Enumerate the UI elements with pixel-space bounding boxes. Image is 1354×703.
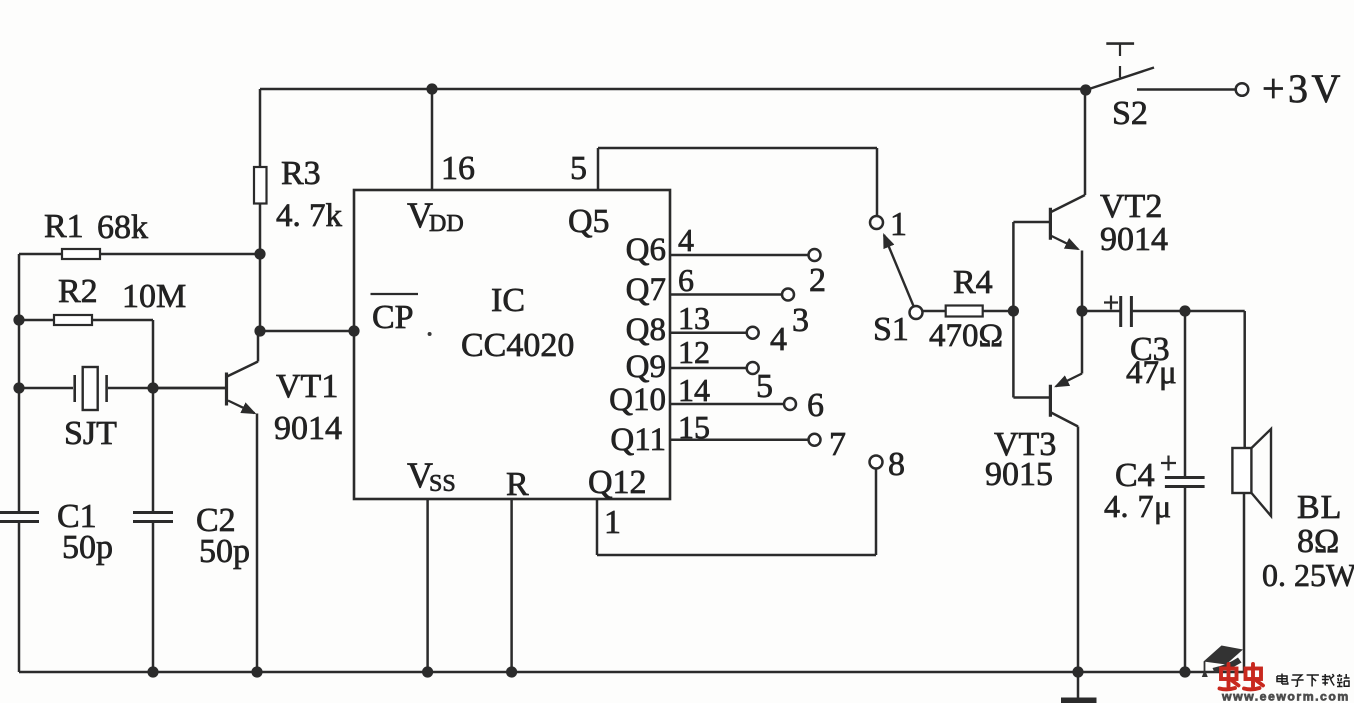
svg-text:Q8: Q8 (626, 312, 666, 348)
svg-text:R1: R1 (44, 208, 84, 245)
svg-text:R3: R3 (281, 155, 321, 192)
svg-text:14: 14 (678, 372, 710, 408)
svg-text:5: 5 (570, 150, 587, 187)
svg-text:Q9: Q9 (626, 349, 666, 385)
svg-text:0. 25W: 0. 25W (1262, 557, 1354, 593)
svg-text:3: 3 (792, 302, 809, 339)
svg-text:SS: SS (429, 471, 456, 497)
svg-text:6: 6 (807, 387, 824, 424)
svg-text:470Ω: 470Ω (929, 318, 1003, 354)
svg-text:68k: 68k (97, 209, 148, 246)
svg-text:1: 1 (604, 504, 621, 541)
svg-text:+3V: +3V (1262, 66, 1344, 111)
svg-text:13: 13 (678, 300, 710, 336)
svg-text:Q10: Q10 (609, 382, 666, 418)
svg-text:47μ: 47μ (1126, 355, 1177, 391)
svg-text:R: R (506, 466, 529, 503)
svg-text:VT2: VT2 (1100, 188, 1162, 225)
svg-text:9014: 9014 (1100, 221, 1168, 258)
svg-text:8Ω: 8Ω (1297, 523, 1339, 560)
svg-text:1: 1 (890, 206, 907, 243)
svg-text:4: 4 (770, 321, 787, 358)
svg-text:9014: 9014 (274, 410, 342, 447)
svg-text:50p: 50p (62, 529, 113, 566)
svg-text:12: 12 (678, 334, 710, 370)
svg-text:5: 5 (756, 368, 773, 405)
svg-text:Q7: Q7 (626, 272, 666, 308)
svg-text:CC4020: CC4020 (461, 327, 574, 364)
svg-text:50p: 50p (199, 533, 250, 570)
svg-text:www.eeworm.com: www.eeworm.com (1221, 690, 1350, 703)
svg-text:6: 6 (678, 262, 694, 298)
svg-text:Q5: Q5 (568, 203, 610, 240)
svg-text:16: 16 (441, 150, 475, 187)
svg-text:15: 15 (678, 409, 710, 445)
svg-text:4: 4 (678, 222, 694, 258)
svg-text:R4: R4 (953, 264, 993, 301)
svg-text:IC: IC (491, 282, 525, 319)
svg-text:4. 7k: 4. 7k (276, 198, 343, 234)
svg-text:Q6: Q6 (626, 232, 666, 268)
svg-text:4. 7μ: 4. 7μ (1104, 488, 1172, 524)
svg-text:S1: S1 (873, 311, 909, 348)
svg-text:R2: R2 (58, 273, 98, 310)
svg-text:SJT: SJT (64, 415, 117, 452)
svg-text:DD: DD (429, 211, 464, 237)
svg-text:S2: S2 (1112, 95, 1148, 132)
svg-text:Q12: Q12 (588, 464, 647, 501)
svg-text:10M: 10M (122, 278, 186, 315)
svg-text:7: 7 (829, 426, 846, 463)
svg-text:2: 2 (809, 262, 826, 299)
svg-text:BL: BL (1297, 489, 1342, 526)
svg-text:CP: CP (372, 299, 414, 336)
svg-text:VT1: VT1 (276, 368, 338, 405)
svg-text:Q11: Q11 (610, 422, 666, 458)
svg-text:9015: 9015 (985, 456, 1053, 493)
svg-text:8: 8 (888, 446, 905, 483)
